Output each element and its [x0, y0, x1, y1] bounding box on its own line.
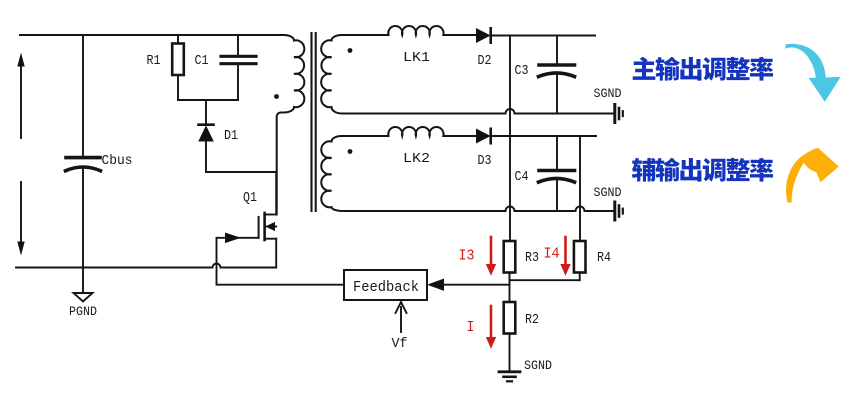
wire top input rail — [20, 34, 284, 36]
wire Vf arrow — [396, 302, 407, 332]
capacitor Cbus — [66, 35, 101, 293]
wire return rail 2 hops — [506, 207, 614, 212]
wire Vout1 sense vertical — [509, 36, 511, 241]
text main output regulation — [633, 57, 773, 81]
svg-text:I: I — [467, 319, 475, 336]
svg-text:R2: R2 — [525, 313, 539, 328]
wire output rail 1 — [492, 35, 596, 37]
svg-text:I4: I4 — [544, 246, 560, 263]
arrow swoosh cyan — [786, 44, 841, 102]
inductor LK2 — [388, 127, 476, 136]
svg-text:SGND: SGND — [594, 186, 622, 200]
diode D2 — [477, 28, 491, 42]
svg-text:D2: D2 — [478, 54, 492, 69]
text aux output regulation — [632, 158, 773, 182]
input polarity arrow down — [17, 182, 24, 256]
svg-text:Q1: Q1 — [243, 191, 257, 206]
transformer secondary 2 — [321, 136, 505, 211]
arrow swoosh orange — [786, 148, 839, 203]
wire Vout2 sense vertical — [579, 136, 581, 241]
current arrow I3 — [490, 237, 493, 265]
svg-text:D1: D1 — [224, 129, 238, 144]
ground SGND2 — [615, 202, 623, 220]
transistor Q1 — [259, 172, 277, 268]
svg-text:C4: C4 — [515, 170, 529, 185]
svg-text:R3: R3 — [525, 251, 539, 266]
wire D1 return to drain — [206, 171, 276, 173]
wire output rail 2 — [492, 135, 597, 137]
ground SGND1 — [615, 105, 623, 123]
wire gate drive — [217, 233, 345, 285]
wire FB input with arrowhead — [429, 279, 510, 290]
diode D1 — [199, 100, 214, 172]
svg-text:R4: R4 — [597, 251, 611, 266]
svg-text:LK1: LK1 — [403, 50, 430, 66]
svg-text:Vf: Vf — [392, 336, 408, 352]
transformer core — [312, 33, 316, 211]
wire clamp rail — [178, 99, 238, 101]
diode D3 — [477, 129, 491, 143]
svg-text:SGND: SGND — [524, 359, 552, 373]
svg-text:Feedback: Feedback — [353, 279, 419, 296]
input polarity arrow up — [17, 53, 24, 139]
primary dot — [274, 94, 279, 99]
resistor R4 — [574, 241, 586, 280]
wire return rail 1 hop — [506, 109, 614, 113]
wire bottom rail with hop — [16, 264, 276, 268]
svg-text:D3: D3 — [478, 154, 492, 169]
svg-text:Cbus: Cbus — [102, 153, 133, 169]
transformer primary winding — [277, 35, 305, 215]
capacitor C1 — [221, 35, 256, 100]
secondary 2 dot — [348, 149, 353, 154]
ground PGND — [74, 293, 93, 302]
svg-text:PGND: PGND — [69, 305, 97, 319]
svg-text:SGND: SGND — [594, 87, 622, 101]
svg-text:C3: C3 — [515, 64, 529, 79]
transformer secondary 1 — [321, 35, 505, 114]
current arrow I4 — [564, 237, 567, 265]
capacitor C3 — [539, 36, 575, 114]
resistor R2 — [504, 302, 516, 371]
svg-text:LK2: LK2 — [403, 151, 430, 167]
secondary 1 dot — [348, 48, 353, 53]
svg-text:I3: I3 — [459, 248, 475, 265]
svg-text:R1: R1 — [147, 54, 161, 69]
wire R4 to node — [510, 279, 580, 281]
ground SGND3 — [499, 372, 520, 382]
feedback block U1 — [344, 270, 427, 300]
resistor R3 — [504, 241, 516, 302]
svg-text:C1: C1 — [195, 54, 209, 69]
inductor LK1 — [388, 26, 476, 35]
resistor R1 — [172, 35, 184, 100]
current arrow I — [490, 306, 493, 338]
capacitor C4 — [539, 136, 575, 211]
